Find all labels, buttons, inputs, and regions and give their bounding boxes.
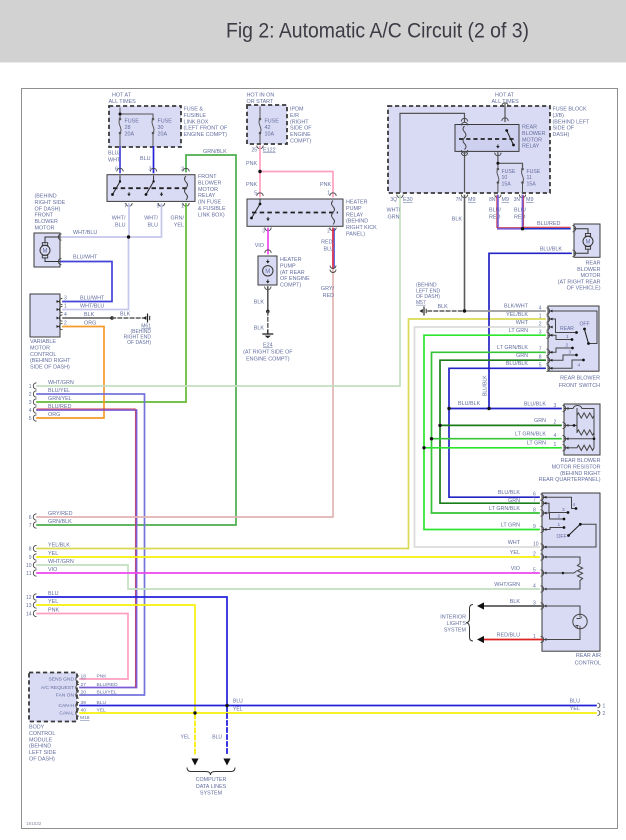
label BLK M57 (438, 304, 449, 310)
svg-text:191532: 191532 (26, 821, 42, 826)
svg-text:BLK: BLK (84, 312, 95, 318)
svg-text:SYSTEM: SYSTEM (200, 791, 223, 797)
svg-text:LT GRN: LT GRN (509, 328, 528, 334)
IPDM E/R box (247, 105, 287, 144)
heater pump symbol (263, 260, 273, 290)
svg-text:20A: 20A (158, 131, 168, 137)
svg-text:14: 14 (26, 612, 32, 618)
svg-text:HOT AT: HOT AT (112, 93, 132, 99)
left connector pin 14 (PNK) (26, 610, 37, 617)
junction GRN (438, 424, 441, 427)
label BLU right (570, 699, 581, 705)
label pin 25 / connector E122 (251, 148, 275, 154)
svg-text:4: 4 (578, 362, 581, 368)
svg-text:5: 5 (29, 416, 32, 422)
svg-text:1: 1 (603, 704, 606, 710)
svg-text:7N: 7N (456, 197, 463, 203)
svg-text:YEL/BLK: YEL/BLK (506, 312, 528, 318)
svg-text:(BEHIND LEFT: (BEHIND LEFT (553, 119, 591, 125)
fuse 11 (521, 168, 524, 192)
wire RED/BLU heater relay pin2 down (333, 229, 334, 268)
junction BLK E24 (266, 310, 269, 313)
junction BLU/RED (521, 227, 524, 230)
label BLU/BLK rear air control pin 6 (498, 490, 536, 497)
svg-text:BODY: BODY (29, 725, 45, 731)
labels 3Q E30 (390, 197, 412, 203)
BCM pin 20 FAN ON (56, 690, 117, 699)
junction BLK M61 (110, 316, 113, 319)
svg-text:5: 5 (157, 204, 160, 210)
label heater pump (280, 257, 310, 289)
svg-text:1: 1 (558, 522, 561, 528)
svg-text:1: 1 (566, 334, 569, 340)
brace computer data lines (187, 768, 235, 776)
svg-text:BLU/BLK: BLU/BLK (524, 401, 547, 407)
svg-text:OFF: OFF (557, 534, 567, 540)
svg-text:INTERIOR: INTERIOR (440, 615, 466, 621)
label BLU/BLK vertical (483, 375, 489, 396)
label FUSE 28 20A (125, 119, 140, 138)
rear air control pot internals (542, 557, 583, 589)
svg-text:MOTOR: MOTOR (198, 187, 218, 193)
left connector pin 8 (YEL/BLK) (29, 545, 37, 552)
label FUSE 10 15A (502, 169, 516, 187)
label LT GRN/BLK switch pin 7 (497, 345, 542, 353)
wire PNK left pin14 to BCM pin18 (37, 614, 128, 680)
module body control module box (29, 673, 77, 722)
svg-text:FAN ON: FAN ON (56, 693, 75, 699)
svg-text:REAR: REAR (586, 261, 601, 267)
svg-text:4: 4 (554, 433, 557, 439)
label RED/BLU (321, 240, 334, 253)
wire PNK branch to heater relay pin1 (260, 172, 336, 197)
svg-text:MODULE: MODULE (29, 737, 52, 743)
fuse & fusible link box (109, 106, 181, 147)
pin numbers 5 1 heater relay (254, 191, 330, 197)
svg-text:BLOWER: BLOWER (577, 267, 600, 273)
label fuse & fusible link box (184, 107, 229, 139)
label PNK lower-left (246, 182, 257, 188)
right connector pin 2 (YEL) (598, 711, 606, 717)
motor M3 rear blower motor box (574, 224, 600, 257)
svg-text:RIGHT KICK: RIGHT KICK (346, 225, 377, 231)
svg-text:4: 4 (29, 408, 32, 414)
svg-text:COMPT): COMPT) (290, 139, 311, 145)
svg-text:BLU: BLU (115, 223, 126, 229)
svg-text:LT GRN/BLK: LT GRN/BLK (515, 432, 546, 438)
svg-text:REAR: REAR (560, 326, 574, 332)
label BLU/BLK branch (458, 401, 481, 407)
svg-text:SYSTEM: SYSTEM (444, 627, 467, 633)
wire RED/BLU to interior lights (482, 639, 542, 641)
label rear blower motor relay (522, 125, 545, 150)
label WHT/GRN rear air control pin 4 (494, 582, 536, 589)
svg-text:18: 18 (81, 674, 87, 680)
labels 3N M9 (514, 197, 534, 203)
rear blower relay internals (459, 122, 515, 153)
label WHT switch pin 2 (516, 320, 542, 328)
svg-text:PUMP: PUMP (280, 263, 296, 269)
svg-text:PNK: PNK (48, 607, 59, 613)
svg-text:BLU/BLK: BLU/BLK (540, 247, 563, 253)
svg-text:8: 8 (29, 547, 32, 553)
label computer data lines system (196, 777, 227, 797)
label GRN/BLK (top) (203, 149, 227, 155)
wire 3Q branch (400, 113, 468, 192)
wire GRN switch pin8 to rear air control pin7 (440, 360, 545, 503)
svg-text:HOT IN ON: HOT IN ON (247, 93, 275, 99)
svg-text:4: 4 (573, 502, 576, 508)
svg-text:HEATER: HEATER (346, 200, 368, 206)
label WHT/BLU VMC (80, 304, 104, 310)
module rear air control box (542, 493, 600, 651)
wire BLU dashed to computer data lines (226, 707, 228, 756)
left connector pin 5 (ORG) (29, 415, 37, 422)
label BLK VMC (84, 312, 95, 318)
svg-text:OFF: OFF (580, 322, 590, 328)
svg-text:GRN: GRN (388, 215, 400, 221)
left connector pin 6 (GRY/RED) (29, 514, 37, 521)
svg-text:(BEHIND: (BEHIND (35, 194, 57, 200)
label VIO left pin 11 (48, 567, 57, 573)
svg-text:PNK: PNK (246, 161, 257, 167)
svg-text:YEL: YEL (48, 599, 58, 605)
svg-text:11: 11 (26, 571, 31, 577)
wire BLK VMC pin4 (63, 317, 112, 319)
svg-text:LT GRN/BLK: LT GRN/BLK (489, 506, 520, 512)
wire BLU/RED left pin4 to BCM pin27 (37, 409, 137, 688)
svg-text:3: 3 (562, 507, 565, 513)
rear blower motor symbol (573, 226, 594, 257)
svg-text:YEL: YEL (233, 707, 243, 713)
svg-text:7: 7 (124, 204, 127, 210)
svg-text:13: 13 (26, 603, 32, 609)
svg-text:3N: 3N (514, 197, 521, 203)
svg-text:RELAY: RELAY (198, 193, 216, 199)
svg-text:3: 3 (262, 229, 265, 235)
inline connector RED/BLU to GRY/RED (330, 266, 336, 273)
svg-text:BLU/BLK: BLU/BLK (498, 490, 521, 496)
IPDM exit cup (257, 146, 263, 149)
svg-text:BLK: BLK (452, 217, 463, 223)
wire WHT/BLU relay pin5 elbow (129, 204, 162, 237)
svg-text:YEL: YEL (174, 223, 184, 229)
svg-text:RED: RED (323, 293, 334, 299)
label HOT AT ALL TIMES (right) (492, 93, 520, 106)
wire GRN branch to resistor pin2 (440, 424, 561, 426)
junction BLU/BLK right (487, 407, 490, 410)
wire BLU/BLK rear motor to junction (489, 253, 571, 408)
pin numbers 6 3 2 (115, 167, 184, 173)
svg-text:GRN: GRN (534, 418, 546, 424)
label BLU (140, 156, 151, 162)
svg-text:LT GRN: LT GRN (501, 523, 520, 529)
svg-text:GRY/RED: GRY/RED (48, 511, 73, 517)
label BLU/RED motor (537, 221, 560, 227)
junction BLK M57 (463, 309, 466, 312)
svg-text:E30: E30 (403, 197, 413, 203)
label BLU dashed (212, 735, 222, 741)
label BLU/BLK resistor pin3 (524, 401, 557, 409)
svg-text:REAR QUARTERPANEL): REAR QUARTERPANEL) (539, 477, 601, 483)
rear air control pin cups (541, 494, 544, 643)
svg-text:M: M (265, 269, 270, 275)
svg-text:8: 8 (533, 507, 536, 513)
svg-text:BLK: BLK (120, 312, 131, 318)
BCM pin 40 CAN-L (59, 708, 106, 717)
svg-text:ORG: ORG (48, 412, 60, 418)
label M57 ground (416, 283, 440, 306)
label BLK dashed E24 (254, 326, 265, 332)
svg-text:BLK: BLK (510, 599, 521, 605)
wire VIO heater relay pin3 to heater pump (265, 229, 271, 254)
label YEL/BLK left pin 8 (48, 542, 70, 548)
svg-text:BLU: BLU (148, 223, 159, 229)
svg-text:GRN/: GRN/ (171, 216, 185, 222)
svg-text:DATA LINES: DATA LINES (196, 784, 227, 790)
svg-text:BLU/: BLU/ (108, 151, 120, 157)
svg-text:MOTOR RESISTOR: MOTOR RESISTOR (552, 464, 601, 470)
svg-text:COMPUTER: COMPUTER (196, 777, 227, 783)
svg-text:PANEL): PANEL) (346, 232, 365, 238)
svg-text:VIO: VIO (255, 243, 264, 249)
left connector pin 3 (GRN/YEL) (29, 399, 37, 406)
svg-text:2: 2 (29, 392, 32, 398)
svg-text:M18: M18 (80, 715, 90, 721)
left connector pin 1 (WHT/GRN) (29, 383, 37, 390)
svg-text:HOT AT: HOT AT (495, 93, 515, 99)
svg-text:30: 30 (158, 125, 164, 131)
svg-text:BLU: BLU (212, 735, 222, 741)
resistor internals (564, 406, 595, 451)
svg-text:BLU/YEL: BLU/YEL (97, 690, 117, 696)
label M18 (80, 715, 90, 721)
wire BLK/WHT to switch pin4 (465, 310, 546, 312)
svg-text:5: 5 (254, 191, 257, 197)
wire WHT/GRN left pin10 to rear air control pin4 (37, 565, 539, 589)
svg-text:42: 42 (265, 125, 271, 131)
svg-text:BLU/: BLU/ (489, 208, 501, 214)
svg-text:WHT: WHT (508, 540, 521, 546)
pin numbers 7 5 1 (124, 204, 184, 210)
label PNK right (320, 182, 331, 188)
svg-text:BLK: BLK (438, 304, 449, 310)
svg-text:RED: RED (489, 215, 500, 221)
svg-text:25: 25 (251, 148, 257, 154)
svg-text:FUSE: FUSE (125, 119, 140, 125)
VMC pin cups (57, 298, 63, 329)
wire ORG VMC pin2 to left connector pin5 (37, 327, 104, 419)
svg-text:& FUSIBLE: & FUSIBLE (198, 206, 226, 212)
ground M61 (143, 314, 150, 323)
junction LT GRN (422, 446, 425, 449)
label body control module (29, 725, 57, 763)
svg-text:BLOWER: BLOWER (198, 180, 221, 186)
svg-text:REAR BLOWER: REAR BLOWER (561, 458, 601, 464)
svg-text:(BEHIND: (BEHIND (29, 744, 51, 750)
label YEL right (570, 706, 580, 712)
svg-text:4: 4 (539, 305, 542, 311)
fuse 30 (152, 118, 155, 147)
svg-text:BLU/BLK: BLU/BLK (483, 375, 489, 396)
svg-text:M9: M9 (526, 197, 534, 203)
svg-text:VARIABLE: VARIABLE (30, 339, 56, 345)
wire BLK dashed to ground M61 (112, 317, 143, 319)
wire BLU CAN-H to right connector pin1 (80, 705, 596, 707)
left connector pin 11 (VIO) (26, 570, 36, 577)
svg-text:VIO: VIO (511, 566, 520, 572)
svg-text:10: 10 (26, 563, 32, 569)
svg-text:6: 6 (29, 515, 32, 521)
svg-text:BLU: BLU (570, 699, 581, 705)
wire GRN/YEL relay pin1 to left connector pin3 (37, 204, 186, 402)
junction BLU CAN (225, 704, 228, 707)
label IPDM E/R (290, 107, 312, 145)
svg-text:YEL/BLK: YEL/BLK (48, 542, 70, 548)
label YEL junction (233, 707, 243, 713)
svg-text:BLU/WHT: BLU/WHT (80, 296, 105, 302)
wire GRY/RED left pin6 to inline connector (37, 268, 333, 517)
fuse block J/B box (388, 106, 550, 193)
svg-text:FUSE &: FUSE & (184, 107, 204, 113)
svg-text:IPDM: IPDM (290, 107, 304, 113)
svg-text:10: 10 (502, 175, 508, 181)
wire LT GRN switch pin3 to rear air control pin9 (424, 335, 545, 529)
svg-text:BLU/BLK: BLU/BLK (506, 361, 529, 367)
wire BLU fuse30 to relay pin3 (150, 147, 156, 173)
svg-text:2: 2 (327, 229, 330, 235)
wire BLK dashed to E24 (267, 312, 269, 332)
label E24 ground (243, 343, 293, 363)
label interior lights system (440, 615, 466, 634)
label GRN/BLK left pin 7 (48, 519, 72, 525)
label YEL left pin 9 (48, 551, 58, 557)
svg-text:WHT/: WHT/ (144, 216, 158, 222)
relay bottom pin cups (126, 203, 189, 206)
svg-text:GRN/YEL: GRN/YEL (48, 396, 72, 402)
ground M57 (419, 307, 426, 316)
junction PNK (258, 170, 261, 173)
VMC pin numbers (64, 296, 67, 327)
BCM pin 18 SENS GND (48, 674, 107, 683)
wire BLU/RED 3N (523, 196, 524, 229)
J/B exit cups (397, 195, 526, 198)
svg-text:YEL: YEL (510, 550, 520, 556)
label RED/BLU rear air control pin 1 (497, 633, 536, 640)
svg-text:9: 9 (533, 524, 536, 530)
wire YEL dashed to computer data lines (194, 715, 196, 757)
svg-text:M: M (43, 249, 48, 255)
heater relay bottom cups (265, 228, 336, 231)
wire BLK heater pump down (267, 287, 269, 312)
svg-text:BLU: BLU (48, 591, 59, 597)
svg-text:BLOWER: BLOWER (522, 131, 545, 137)
label rear blower front switch (559, 376, 600, 390)
wire YEL/BLK left pin8 to switch pin1 (37, 319, 545, 549)
svg-text:BLU/YEL: BLU/YEL (48, 388, 70, 394)
wire BLU left pin12 down to CAN junction (37, 597, 227, 706)
svg-text:1: 1 (29, 384, 32, 390)
motor M1 front blower motor box (34, 233, 60, 267)
left connector pin 13 (YEL) (26, 602, 37, 609)
svg-text:FRONT: FRONT (198, 174, 217, 180)
svg-text:1: 1 (327, 191, 330, 197)
svg-text:10: 10 (533, 541, 539, 547)
svg-text:PUMP: PUMP (346, 206, 362, 212)
svg-text:GRN/BLK: GRN/BLK (48, 519, 72, 525)
wire BLK dashed to ground M57 (428, 310, 465, 312)
resistor pin cups (563, 405, 569, 451)
svg-text:ENGINE COMPT): ENGINE COMPT) (246, 357, 290, 363)
svg-text:15A: 15A (502, 181, 512, 187)
svg-text:OF DASH): OF DASH) (127, 340, 151, 346)
label LT GRN rear air control pin 9 (501, 523, 536, 530)
label BLU/RED left pin 4 (48, 404, 71, 410)
svg-text:BLOWER: BLOWER (35, 219, 58, 225)
label WHT/BLU pin7 (112, 216, 126, 229)
svg-text:SIDE OF: SIDE OF (290, 126, 312, 132)
svg-text:BLU: BLU (140, 156, 151, 162)
svg-text:E/R: E/R (290, 113, 299, 119)
svg-text:SIDE OF DASH): SIDE OF DASH) (30, 365, 70, 371)
svg-text:GRY/: GRY/ (321, 286, 335, 292)
svg-text:E122: E122 (263, 148, 276, 154)
label rear blower motor (558, 261, 601, 292)
label heater pump relay (346, 200, 377, 238)
svg-text:FUSE: FUSE (158, 119, 173, 125)
svg-text:6: 6 (115, 167, 118, 173)
label FUSE 42 10A (265, 119, 280, 138)
label GRN/YEL (171, 216, 185, 229)
svg-text:2: 2 (533, 551, 536, 557)
svg-text:FUSE: FUSE (527, 169, 541, 175)
label BLU/BLK motor (540, 247, 563, 253)
svg-text:8N: 8N (489, 197, 496, 203)
svg-text:BLU/RED: BLU/RED (537, 221, 560, 227)
svg-text:4: 4 (64, 312, 67, 318)
svg-text:WHT/BLU: WHT/BLU (80, 304, 104, 310)
svg-text:PNK: PNK (246, 182, 257, 188)
svg-text:ENGINE: ENGINE (290, 132, 311, 138)
switch internals (548, 310, 597, 370)
label FUSE 30 20A (158, 119, 173, 138)
wire YEL left pin13 down to CAN junction (37, 605, 195, 713)
wire WHT/BLU motor to junction to VMC pin1 (61, 237, 129, 310)
label ORG VMC (84, 321, 96, 327)
svg-text:(BEHIND RIGHT: (BEHIND RIGHT (560, 471, 601, 477)
relay K3 rear blower motor relay box (455, 125, 519, 152)
svg-text:Fig 2: Automatic A/C Circuit (: Fig 2: Automatic A/C Circuit (2 of 3) (226, 19, 529, 43)
label GRN resistor pin2 (534, 418, 556, 426)
wire LT GRN/BLK switch pin7 to rear air control pin8 (432, 352, 546, 513)
label BLU/WHT (108, 151, 121, 164)
svg-text:WHT/GRN: WHT/GRN (48, 559, 74, 565)
svg-text:MOTOR: MOTOR (30, 345, 50, 351)
label YEL rear air control pin 2 (510, 550, 536, 557)
offpage arrow RED/BLU (477, 636, 484, 643)
wire WHT/BLU relay pin7 down (128, 204, 130, 237)
svg-text:RED: RED (514, 215, 525, 221)
svg-text:WHT/BLU: WHT/BLU (73, 230, 97, 236)
svg-text:CONTROL: CONTROL (30, 352, 56, 358)
label GRY/RED mid (321, 286, 335, 299)
wire HOT AT feed into rear relay (502, 103, 508, 122)
left connector pin 4 (BLU/RED) (29, 407, 37, 414)
svg-text:7: 7 (29, 523, 32, 529)
label VIO (255, 243, 264, 249)
label LT GRN switch pin 3 (509, 328, 542, 336)
svg-text:2: 2 (558, 513, 561, 519)
